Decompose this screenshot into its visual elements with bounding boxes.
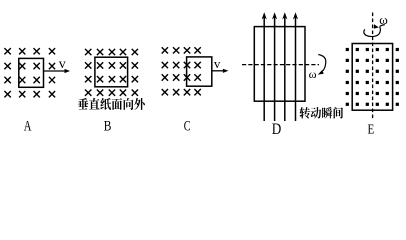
rotation axis E (dashed vertical) [372,13,374,119]
field region C: x symbols [162,47,201,95]
svg-text:E: E [368,121,375,137]
velocity arrow C [212,69,229,73]
field region B: x symbols [85,49,138,96]
conducting loop A [19,58,44,87]
svg-text:v: v [59,57,66,72]
caption: chui zhi zhi mian xiang wai (B field out of page) [78,98,145,110]
conducting loop C (half out of field) [187,57,212,86]
svg-text:B: B [104,117,112,134]
field region A: x symbols (B into page) [4,48,55,97]
svg-text:D: D [272,121,282,138]
rotation axis D (dashed) [242,64,319,66]
coil D rectangle [254,27,305,102]
svg-text:ω: ω [379,12,388,27]
conducting loop B [95,57,128,87]
conducting loop E [352,44,392,111]
svg-text:ω: ω [309,67,317,81]
svg-text:v: v [214,56,221,71]
velocity arrow A [44,69,71,73]
omega rotation arrow E (loop around axis) [364,24,385,36]
caption: zhuan dong shun jian (instant of rotation) [300,107,343,119]
omega rotation arrow D [318,55,326,75]
field lines D with up arrows [262,12,299,121]
svg-text:A: A [24,118,32,134]
svg-text:C: C [184,118,191,134]
field region E: dots (B out of page) [346,48,399,106]
